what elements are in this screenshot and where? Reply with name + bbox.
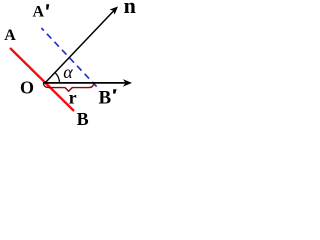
svg-text:α: α xyxy=(63,62,73,82)
svg-text:B: B xyxy=(99,88,112,109)
brace for r (dark red) xyxy=(43,83,93,91)
svg-text:r: r xyxy=(69,88,77,108)
incident ray AB (red line through O) xyxy=(10,48,74,111)
svg-text:O: O xyxy=(20,78,34,98)
normal n with arrow xyxy=(45,10,115,83)
svg-text:B: B xyxy=(77,109,89,129)
angle alpha arc xyxy=(55,73,60,83)
horizontal line OB' with arrow xyxy=(43,82,128,84)
dashed line A'B' (blue) xyxy=(41,28,97,87)
svg-text:A: A xyxy=(33,4,45,21)
svg-text:n: n xyxy=(124,0,136,18)
svg-text:A: A xyxy=(4,27,16,44)
